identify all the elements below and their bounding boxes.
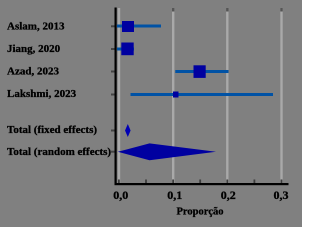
top tick 0.2 [226,8,228,12]
gridline 0.1 [172,8,174,183]
svg-text:0,2: 0,2 [221,188,236,202]
axis tick 0.25 [254,180,256,184]
svg-text:0,0: 0,0 [113,188,128,202]
gridline 0.3 [280,8,282,183]
axis tick 0.20 [226,180,228,184]
square marker Jiang [121,43,133,56]
row tick Aslam [111,25,115,27]
axis tick 0.05 [145,180,147,184]
top tick 0.3 [280,8,282,12]
top tick 0.1 [172,8,174,12]
CI line Jiang [117,48,134,51]
svg-text:Aslam, 2013: Aslam, 2013 [7,20,65,32]
row tick total random [111,151,115,153]
square marker Lakshmi [173,92,179,98]
svg-text:Total (random effects): Total (random effects) [7,146,111,158]
svg-text:Azad, 2023: Azad, 2023 [7,65,59,77]
svg-text:Proporção: Proporção [176,207,223,218]
x axis line [115,183,289,185]
axis tick 0.30 [281,180,283,184]
axis tick 0.15 [199,180,201,184]
row tick total fixed [111,130,115,132]
diamond total random effects [118,143,216,160]
diamond total fixed effects [125,124,131,137]
row tick Lakshmi [111,94,115,96]
gridline 0.2 [226,8,228,183]
y axis spine [115,8,117,186]
row tick Jiang [111,48,115,50]
axis tick 0.10 [172,180,174,184]
svg-text:Lakshmi, 2023: Lakshmi, 2023 [7,88,77,100]
square marker Azad [194,65,206,78]
row tick Azad [111,71,115,73]
axis tick 0.00 [118,180,120,184]
CI line Aslam [117,25,161,28]
svg-text:Jiang, 2020: Jiang, 2020 [7,43,61,55]
gridline 0.0 [118,8,120,183]
square marker Aslam [122,21,134,32]
CI line Azad [175,70,228,73]
CI line Lakshmi [131,93,274,96]
svg-text:0,3: 0,3 [274,188,289,202]
svg-text:0,1: 0,1 [167,188,182,202]
svg-text:Total (fixed effects): Total (fixed effects) [7,124,97,136]
